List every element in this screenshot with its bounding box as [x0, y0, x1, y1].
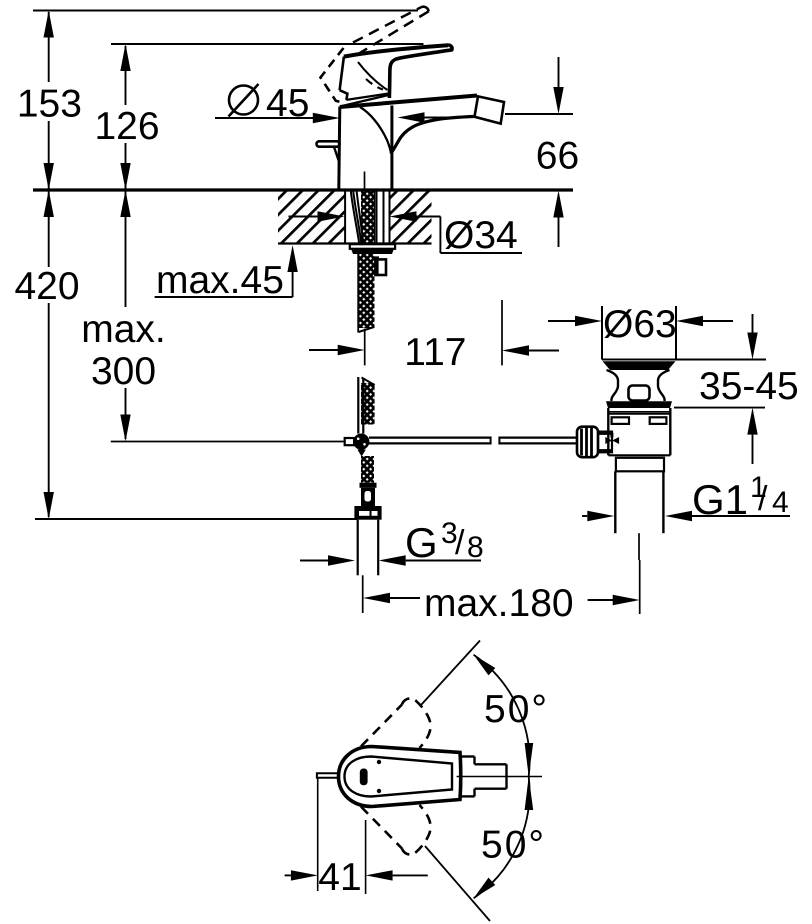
threaded section below tee	[361, 456, 374, 483]
arrow Ø45 right	[398, 112, 425, 122]
faucet body right edge	[390, 106, 393, 190]
dashed raised handle lower edge	[359, 11, 429, 53]
handle left edge	[340, 57, 344, 91]
dashed handle inner arc	[366, 79, 383, 90]
plan lower diagonal	[425, 846, 490, 921]
handle skirt bottom	[346, 94, 388, 100]
shank break edge	[359, 327, 375, 332]
arrow 153 bottom	[44, 163, 54, 190]
lift rod lines	[357, 377, 359, 434]
arrow 420 bottom	[44, 492, 54, 519]
svg-text:50°: 50°	[484, 688, 549, 731]
check valve collar	[360, 483, 377, 488]
handle inner arc	[358, 62, 388, 90]
dashed raised handle tip	[422, 7, 429, 12]
arrow max180 right	[613, 595, 640, 605]
arrow Ø34 right	[390, 211, 417, 221]
svg-text:G: G	[405, 519, 438, 566]
countertop slab hatch right	[390, 192, 432, 244]
label Ø45 with leader	[229, 86, 258, 115]
popup tail centerline	[638, 533, 640, 560]
plan handle inner outline	[345, 757, 453, 797]
plan dashed raised lever	[361, 705, 402, 747]
spout nozzle	[475, 96, 505, 123]
arrow Ø63 left	[575, 316, 602, 326]
arrow 41 left	[291, 870, 318, 880]
svg-text:/: /	[455, 524, 465, 562]
svg-text:4: 4	[772, 486, 789, 519]
arrow 66 bottom	[553, 191, 563, 218]
plan centerline	[457, 776, 542, 778]
body inner S-curve	[360, 107, 391, 154]
check valve nut	[354, 506, 381, 520]
popup seal plate	[606, 401, 672, 408]
svg-text:420: 420	[14, 265, 79, 308]
threaded section above tee	[361, 383, 375, 425]
handle base notch	[340, 90, 348, 100]
arrow 66 top	[553, 87, 563, 114]
plan screw dots	[377, 760, 381, 764]
arrow G114 right	[665, 511, 692, 521]
arrow 117 right	[502, 345, 529, 355]
popup flange bottom	[602, 359, 676, 361]
tee ball joint	[353, 434, 369, 450]
dimension 117	[364, 329, 366, 366]
rod connector	[598, 432, 612, 453]
rod clevis	[345, 438, 354, 445]
svg-text:Ø63: Ø63	[603, 303, 677, 346]
reference line handle rest top	[111, 43, 424, 45]
spout bottom edge	[392, 117, 474, 153]
angle arc lower	[474, 777, 530, 899]
mounting hole edges	[344, 191, 346, 244]
arrow max45	[287, 245, 297, 272]
svg-text:66: 66	[536, 135, 579, 178]
faucet tailpipe	[357, 520, 359, 576]
svg-text:max.180: max.180	[424, 582, 574, 625]
dashed handle block left edge	[321, 48, 345, 103]
svg-text:41: 41	[318, 856, 361, 899]
svg-text:/: /	[758, 480, 768, 518]
arrow 35-45 top	[747, 333, 757, 360]
popup body	[607, 408, 609, 455]
arrow Ø63 right	[676, 316, 703, 326]
hose curves	[351, 191, 359, 244]
spout top edge	[340, 96, 477, 108]
dimension line 153/420 vertical	[48, 12, 50, 82]
arrow 420 top	[44, 190, 54, 217]
pop-up knob	[317, 141, 340, 146]
popup tailpipe	[614, 471, 616, 533]
popup overflow windows	[612, 417, 629, 424]
handle tip and bottom edge	[389, 45, 452, 98]
arrow 126 bottom	[120, 163, 130, 190]
popup body bottom	[608, 454, 670, 456]
svg-text:Ø34: Ø34	[444, 214, 518, 257]
svg-text:117: 117	[404, 331, 466, 374]
arrow 126 top	[120, 44, 130, 71]
mounting nut	[351, 249, 394, 254]
arrow 117 left	[338, 345, 365, 355]
arc arrowheads	[474, 655, 496, 676]
countertop deck line	[33, 188, 573, 191]
arrow 35-45 bottom	[747, 408, 757, 435]
arrow G38 left	[328, 555, 355, 565]
arrow max300 top	[120, 190, 130, 217]
label 66 with dimension	[505, 113, 573, 115]
bottom reference line of 420	[35, 518, 358, 520]
plan upper diagonal	[421, 641, 480, 706]
shank tube lines	[376, 191, 378, 244]
popup lower collar	[616, 458, 664, 472]
dimension 41	[317, 778, 319, 891]
popup flange sides (Ø63 extension)	[601, 306, 603, 360]
faucet centerline tick above deck	[364, 172, 366, 190]
dimension line 126/max300 vertical	[125, 46, 127, 105]
arrow G38 right	[379, 555, 406, 565]
handle top edge	[344, 45, 448, 56]
svg-text:max.: max.	[81, 308, 166, 351]
svg-text:50°: 50°	[481, 824, 546, 867]
arrow 153 top	[44, 11, 54, 38]
rod level reference line	[111, 441, 345, 443]
mounting washer	[350, 244, 395, 249]
plan cartridge slot	[360, 769, 368, 786]
arrow G114 left	[587, 511, 614, 521]
svg-text:max.45: max.45	[156, 259, 284, 302]
faucet tail centerline	[362, 575, 364, 613]
arrow max180 left	[363, 593, 390, 603]
plan pop-up knob tab	[317, 773, 339, 777]
arrow Ø45 left	[313, 113, 340, 123]
plan valve collar	[460, 755, 475, 757]
svg-text:35-45: 35-45	[699, 365, 799, 408]
svg-text:300: 300	[91, 350, 156, 393]
svg-text:8: 8	[467, 531, 484, 564]
countertop slab hatch left	[278, 192, 345, 244]
arrow 41 right	[366, 870, 393, 880]
svg-text:126: 126	[94, 105, 159, 148]
plan handle outer outline	[339, 747, 461, 807]
slab bottom line	[278, 242, 432, 244]
popup neck left	[607, 370, 619, 401]
threaded shank below slab	[359, 254, 375, 328]
svg-text:153: 153	[17, 83, 82, 126]
popup flange underside	[603, 361, 676, 370]
ball lower stem	[357, 450, 366, 457]
pop-up rod left piece	[369, 437, 491, 439]
knurled adjuster nut	[577, 427, 598, 458]
faucet body left edge	[339, 107, 340, 190]
dashed raised handle upper edge	[353, 7, 422, 43]
pop-up centerline extension	[639, 560, 641, 614]
rod pivot bowtie	[605, 437, 612, 444]
popup neck right	[658, 370, 670, 401]
arrow max300 bottom	[120, 415, 130, 442]
dimension 35-45	[676, 359, 766, 361]
plan valve stem	[475, 763, 507, 765]
body top seam	[341, 95, 389, 106]
pop-up rod right piece	[499, 437, 577, 439]
clamp screw	[375, 259, 386, 275]
angle arc upper	[474, 655, 530, 777]
check valve body	[361, 488, 375, 506]
popup lift knob	[629, 386, 650, 401]
plan dashed lowered lever	[361, 807, 402, 849]
arrow Ø34 left	[318, 211, 345, 221]
threaded shank in slab	[361, 191, 375, 244]
top reference line (handle raised)	[33, 10, 418, 12]
